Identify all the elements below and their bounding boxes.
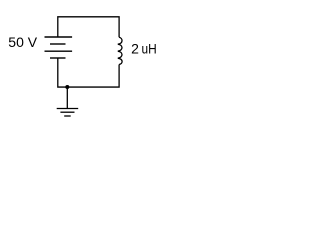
svg-text:2: 2 [131, 40, 139, 56]
svg-text:uH: uH [142, 40, 157, 56]
svg-text:50 V: 50 V [8, 34, 37, 50]
